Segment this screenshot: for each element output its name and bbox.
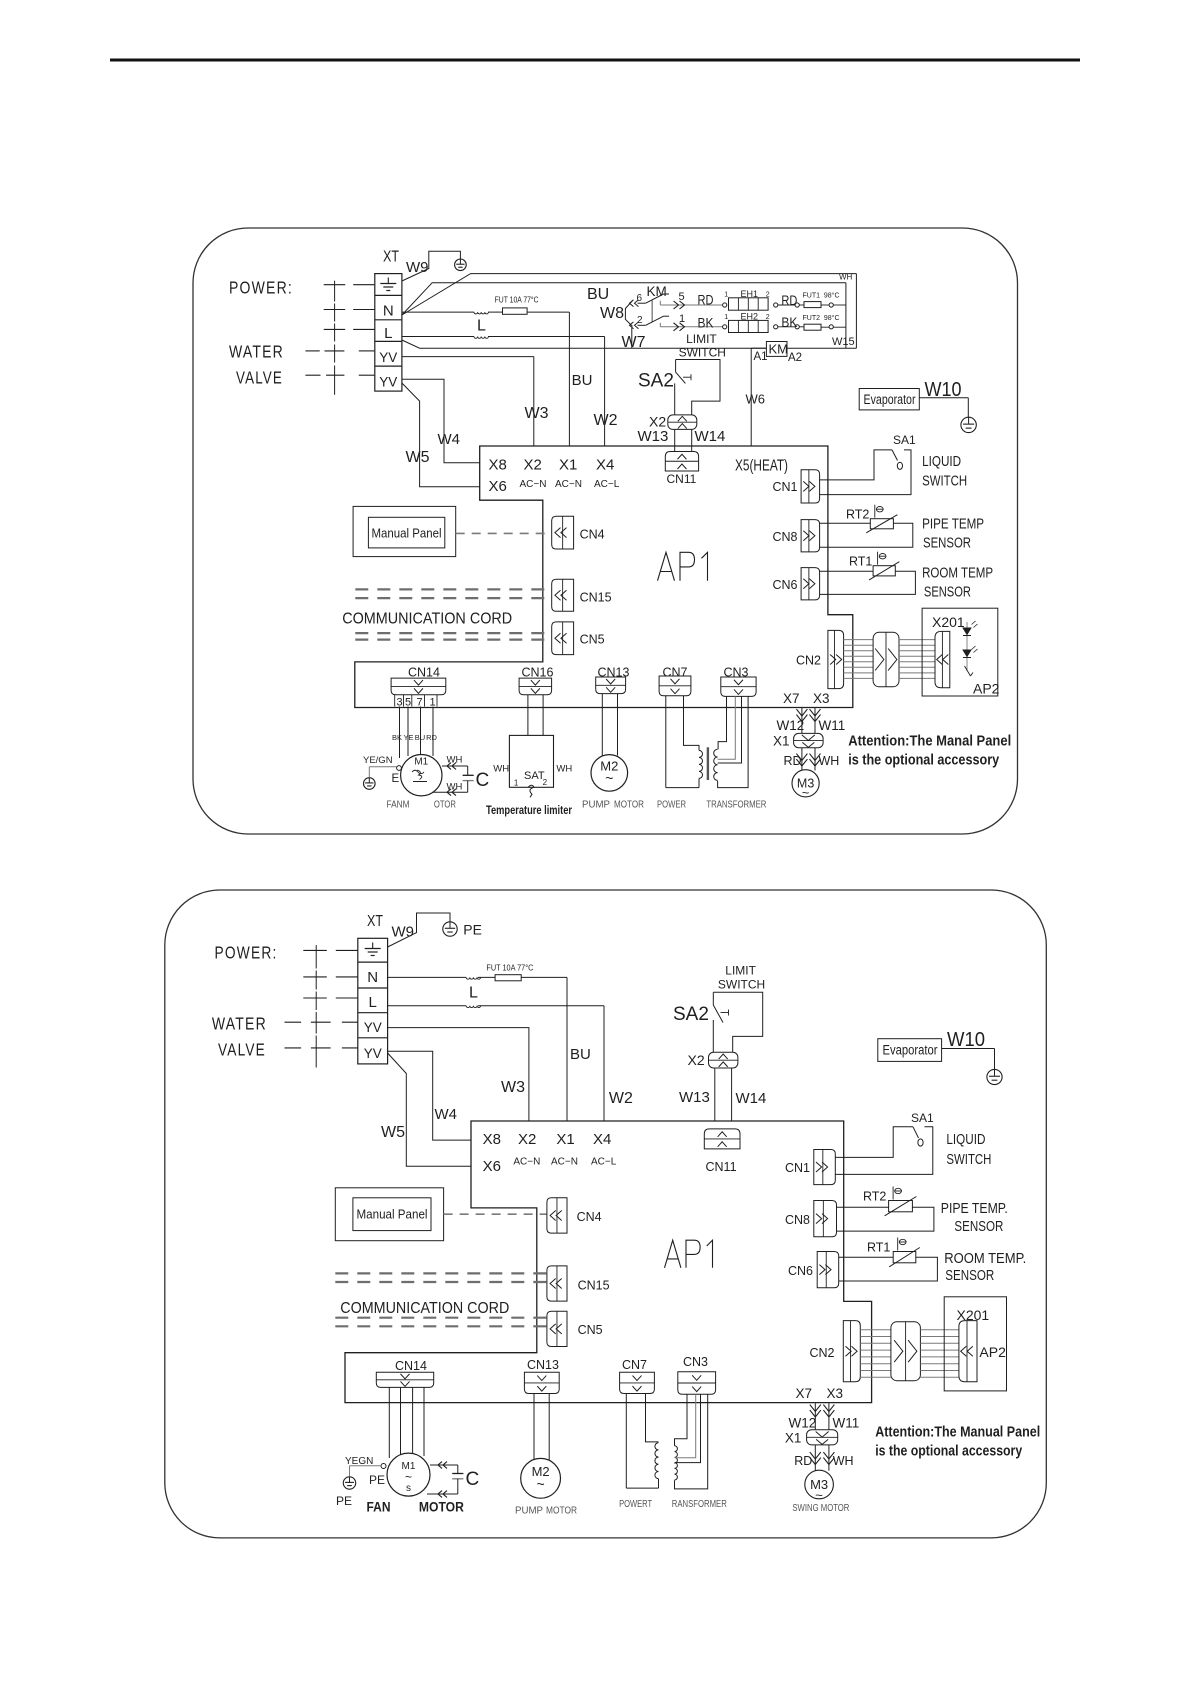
svg-text:WH: WH <box>447 755 463 766</box>
wire W3 diagram2 <box>388 1028 529 1121</box>
ribbon cable middle to X201 <box>899 639 935 641</box>
wire L phase <box>402 336 474 338</box>
svg-text:W4: W4 <box>435 1106 458 1123</box>
svg-text:CN6: CN6 <box>788 1264 813 1278</box>
svg-text:CN15: CN15 <box>578 1279 610 1293</box>
power feed L row diagram2 <box>303 997 327 999</box>
heater EH1 <box>723 303 727 307</box>
wires CN14 to fan motor diagram2 <box>388 1387 390 1458</box>
capacitor C diagram2 <box>430 1464 458 1466</box>
svg-text:CN16: CN16 <box>522 666 554 680</box>
contactor coil KM <box>766 342 787 357</box>
evaporator box diagram1 <box>859 389 919 410</box>
power feed N row diagram2 <box>303 976 327 978</box>
svg-text:WH: WH <box>556 764 572 775</box>
svg-text:SWITCH: SWITCH <box>718 977 765 991</box>
svg-text:1: 1 <box>724 314 728 321</box>
svg-text:LIQUID: LIQUID <box>946 1132 985 1148</box>
svg-text:RT2: RT2 <box>863 1190 886 1204</box>
earth symbol fan motor diagram1 <box>364 778 376 790</box>
connector CN11 diagram2 <box>704 1129 740 1149</box>
svg-text:PUMP: PUMP <box>582 800 610 811</box>
liquid switch SA1 loop diagram1 <box>820 450 892 480</box>
svg-text:RT1: RT1 <box>867 1241 890 1255</box>
connector X1 diagram1 <box>794 733 824 747</box>
connector CN1 diagram1 <box>801 470 820 503</box>
svg-text:X1: X1 <box>559 456 577 473</box>
svg-text:COMMUNICATION CORD: COMMUNICATION CORD <box>340 1300 509 1317</box>
svg-text:ROOM TEMP: ROOM TEMP <box>922 566 993 582</box>
svg-text:TRANSFORMER: TRANSFORMER <box>706 800 766 811</box>
svg-text:X7: X7 <box>796 1386 813 1401</box>
connector CN8 diagram2 <box>814 1201 837 1237</box>
wires CN13 to pump motor <box>601 694 603 756</box>
connector X201 diagram1 <box>935 631 950 687</box>
svg-text:~: ~ <box>405 1470 412 1484</box>
svg-text:C: C <box>476 770 490 791</box>
svg-text:X2: X2 <box>524 456 542 473</box>
connector CN2 diagram1 <box>828 630 844 688</box>
svg-text:CN3: CN3 <box>683 1355 708 1369</box>
dashed wire manual panel to CN4 diagram2 <box>444 1213 547 1215</box>
svg-text:ROOM TEMP.: ROOM TEMP. <box>944 1251 1026 1267</box>
ribbon cable CN2 to middle connector <box>844 639 874 641</box>
display board AP2 box diagram1 <box>922 608 998 696</box>
earth symbol PE diagram2 <box>443 922 457 936</box>
svg-text:FUT 10A 77°C: FUT 10A 77°C <box>486 964 533 973</box>
connector CN15 diagram2 <box>547 1266 567 1301</box>
svg-text:X6: X6 <box>489 478 507 495</box>
svg-text:CN2: CN2 <box>796 654 821 668</box>
svg-text:CN14: CN14 <box>408 666 440 680</box>
svg-text:PIPE TEMP.: PIPE TEMP. <box>941 1201 1008 1217</box>
label AP1 diagram1 <box>658 552 675 580</box>
svg-text:POWERT: POWERT <box>619 1499 652 1510</box>
svg-text:W14: W14 <box>736 1090 767 1107</box>
power feed N row <box>324 309 346 311</box>
svg-text:W11: W11 <box>819 718 846 733</box>
page top rule <box>110 59 1080 62</box>
svg-text:AC−N: AC−N <box>555 479 582 490</box>
svg-text:VALVE: VALVE <box>218 1039 266 1059</box>
thermistor RT2 diagram1 <box>820 522 871 524</box>
svg-text:SA1: SA1 <box>911 1111 934 1125</box>
svg-text:W15: W15 <box>832 336 855 348</box>
svg-text:CN1: CN1 <box>772 480 797 494</box>
svg-text:W5: W5 <box>406 449 430 466</box>
wire W2 vertical to X4 <box>604 337 606 447</box>
communication cord dashes lower diagram2 <box>335 1317 547 1319</box>
CN14 pin cells 3 5 7 1 <box>394 695 396 707</box>
transformer primary coil diagram1 <box>699 750 703 778</box>
svg-text:X1: X1 <box>785 1431 802 1446</box>
svg-text:X4: X4 <box>596 456 614 473</box>
svg-text:COMMUNICATION CORD: COMMUNICATION CORD <box>342 611 512 628</box>
earth symbol W10 diagram2 <box>987 1069 1002 1084</box>
svg-text:XT: XT <box>383 249 399 266</box>
connector CN15 diagram1 <box>552 579 574 611</box>
wire BU upper <box>402 283 846 315</box>
ribbon middle connector diagram2 <box>891 1322 921 1381</box>
LED D2 on AP2 <box>963 650 971 657</box>
terminal block XT diagram2 <box>358 938 388 1064</box>
svg-text:PE: PE <box>336 1494 352 1508</box>
connector CN11 diagram1 <box>665 452 698 472</box>
board AP1 outline diagram1 <box>355 446 853 708</box>
wire W11 with arrows <box>814 708 816 734</box>
svg-text:WH: WH <box>833 1454 854 1468</box>
wire W3 from YV to X2 <box>402 356 534 358</box>
transformer core diagram1 <box>707 747 709 780</box>
svg-text:98°C: 98°C <box>824 314 840 322</box>
svg-text:W11: W11 <box>833 1416 860 1431</box>
wire W4 diagram2 <box>388 1051 471 1140</box>
svg-text:RD: RD <box>426 733 437 742</box>
svg-text:CN15: CN15 <box>580 591 612 605</box>
evaporator box diagram2 <box>878 1039 942 1062</box>
svg-text:CN11: CN11 <box>667 472 697 486</box>
heater box right edge <box>855 274 857 349</box>
wire RD to swing motor <box>801 748 803 771</box>
water valve feed row 1 <box>305 350 319 352</box>
svg-text:A1: A1 <box>754 351 768 363</box>
svg-text:YV: YV <box>379 375 397 390</box>
svg-text:W2: W2 <box>594 412 618 429</box>
wires CN16 to SAT <box>527 695 529 736</box>
svg-text:MOTOR: MOTOR <box>614 800 644 811</box>
wire W14 <box>691 429 693 451</box>
svg-text:FAN: FAN <box>367 1500 391 1515</box>
svg-text:CN8: CN8 <box>785 1213 810 1227</box>
svg-text:~: ~ <box>802 785 810 800</box>
svg-text:SWITCH: SWITCH <box>679 345 726 359</box>
svg-text:1: 1 <box>724 291 728 298</box>
earth symbol fan motor diagram2 <box>343 1477 355 1489</box>
transformer secondary coil diagram1 <box>714 749 718 780</box>
wire W13 <box>674 429 676 451</box>
svg-text:98°C: 98°C <box>824 291 840 299</box>
svg-text:BU: BU <box>587 286 609 303</box>
wire WH right vertical <box>845 283 847 349</box>
svg-text:~: ~ <box>605 770 613 786</box>
wire W4 from YV to X8 <box>402 379 480 463</box>
svg-text:SWITCH: SWITCH <box>946 1152 991 1168</box>
svg-text:WATER: WATER <box>212 1014 267 1034</box>
svg-text:6: 6 <box>637 293 643 304</box>
wires CN3 to transformer secondary diagram2 <box>675 1394 688 1446</box>
communication cord dashes upper diagram2 <box>335 1272 547 1274</box>
svg-text:CN5: CN5 <box>578 1323 603 1337</box>
Manual Panel box diagram1 <box>353 506 456 556</box>
earth symbol W10 diagram1 <box>961 417 976 432</box>
temperature limiter SAT box <box>509 735 553 787</box>
wires CN3 to transformer secondary <box>718 696 726 749</box>
connector X2 diagram2 <box>709 1052 738 1068</box>
svg-text:POWER: POWER <box>657 800 686 811</box>
fuse FUT1 <box>795 303 799 307</box>
fuse FUT diagram2 <box>495 975 521 981</box>
svg-text:2: 2 <box>543 778 548 787</box>
svg-text:CN11: CN11 <box>706 1160 737 1174</box>
svg-text:VALVE: VALVE <box>236 368 283 388</box>
svg-text:L: L <box>384 325 392 342</box>
svg-text:WH: WH <box>447 782 463 793</box>
svg-text:XT: XT <box>367 913 383 930</box>
svg-text:YV: YV <box>364 1046 382 1061</box>
power feed L row <box>324 328 346 330</box>
svg-text:BK: BK <box>392 733 402 742</box>
wires CN7 to transformer primary diagram2 <box>625 1394 627 1489</box>
svg-text:N: N <box>367 969 378 986</box>
svg-text:L: L <box>369 994 377 1011</box>
wire N phase with line filter and fuse FUT <box>402 311 474 313</box>
svg-text:MOTOR: MOTOR <box>419 1500 464 1515</box>
svg-text:W14: W14 <box>695 428 726 445</box>
svg-text:W10: W10 <box>947 1029 985 1051</box>
motor M3 diagram2 <box>805 1470 834 1499</box>
svg-text:CN5: CN5 <box>580 633 605 647</box>
svg-text:KM: KM <box>769 342 789 357</box>
water valve feed row 2 diagram2 <box>285 1047 302 1049</box>
wire W6 to board <box>751 347 766 349</box>
svg-text:M1: M1 <box>414 757 428 768</box>
connector CN8 diagram1 <box>801 520 820 552</box>
photo switch on AP2 <box>965 666 971 676</box>
label AP1 diagram2 <box>665 1240 681 1268</box>
XT ground cell earth symbol <box>387 278 389 284</box>
svg-text:CN8: CN8 <box>772 530 797 544</box>
svg-text:PE: PE <box>369 1473 385 1487</box>
svg-text:X8: X8 <box>489 456 507 473</box>
svg-text:W5: W5 <box>381 1124 405 1141</box>
svg-text:X6: X6 <box>483 1158 501 1175</box>
wire KM pole 1 to EH2 <box>659 323 661 327</box>
ribbon middle connector diagram1 <box>873 632 899 687</box>
svg-text:BU: BU <box>415 733 425 742</box>
svg-text:is the optional accessory: is the optional accessory <box>848 752 999 768</box>
wire KM pole 5 to EH1 <box>659 301 661 305</box>
terminal block XT <box>375 274 402 392</box>
svg-text:2: 2 <box>766 314 770 321</box>
svg-text:Evaporator: Evaporator <box>883 1043 938 1058</box>
svg-text:N: N <box>383 303 394 320</box>
svg-text:CN4: CN4 <box>580 528 605 542</box>
display board AP2 box diagram2 <box>944 1297 1006 1391</box>
inductor on L wire <box>474 337 488 339</box>
svg-text:AP2: AP2 <box>973 681 1000 697</box>
power feed ground row <box>324 284 346 286</box>
svg-text:1: 1 <box>679 313 685 325</box>
svg-text:PE: PE <box>463 922 482 938</box>
svg-text:FANM: FANM <box>387 800 410 811</box>
svg-text:PIPE TEMP: PIPE TEMP <box>922 516 984 532</box>
svg-text:W3: W3 <box>525 405 549 422</box>
svg-text:X4: X4 <box>593 1131 611 1148</box>
wire W13 diagram2 <box>714 1068 716 1121</box>
svg-text:YEGN: YEGN <box>345 1456 373 1467</box>
inductor on L wire diagram2 <box>466 1006 480 1008</box>
Manual Panel box diagram2 <box>335 1188 443 1241</box>
connector CN4 diagram2 <box>547 1198 567 1233</box>
wire N to heater top line <box>402 274 857 315</box>
svg-text:X2: X2 <box>518 1131 536 1148</box>
svg-text:X1: X1 <box>556 1131 574 1148</box>
heater EH2 <box>723 325 727 329</box>
svg-text:X201: X201 <box>932 614 965 630</box>
wires CN7 to transformer primary <box>665 696 667 788</box>
earth symbol PE top diagram1 <box>455 259 467 271</box>
svg-text:L: L <box>469 985 478 1002</box>
svg-text:C: C <box>466 1469 480 1490</box>
svg-text:5: 5 <box>679 291 685 303</box>
svg-text:YE/GN: YE/GN <box>363 755 393 766</box>
connector CN5 diagram2 <box>547 1311 567 1346</box>
svg-text:CN7: CN7 <box>663 666 688 680</box>
terminal PE on fan motor diagram2 <box>381 1464 386 1469</box>
svg-text:W3: W3 <box>501 1079 525 1096</box>
svg-text:RD: RD <box>698 292 714 308</box>
svg-text:AC−N: AC−N <box>520 479 547 490</box>
svg-text:BU: BU <box>570 1046 591 1063</box>
svg-text:CN1: CN1 <box>785 1161 810 1175</box>
svg-text:W7: W7 <box>622 334 646 351</box>
svg-text:AC−L: AC−L <box>594 479 620 490</box>
svg-text:SENSOR: SENSOR <box>954 1219 1003 1235</box>
svg-text:MOTOR: MOTOR <box>546 1506 577 1517</box>
svg-text:W9: W9 <box>406 259 429 276</box>
svg-text:Temperature limiter: Temperature limiter <box>486 805 572 817</box>
wires CN14 to fan motor <box>399 707 401 759</box>
svg-text:Evaporator: Evaporator <box>864 392 916 407</box>
fuse FUT 10A 77C <box>503 308 528 314</box>
fan motor M1 diagram1 <box>401 755 442 796</box>
svg-text:BK: BK <box>698 315 715 331</box>
wire BU vertical diagram2 <box>566 977 568 1121</box>
svg-text:E: E <box>392 773 400 785</box>
svg-text:~: ~ <box>537 1476 545 1492</box>
svg-text:RD: RD <box>784 754 802 768</box>
diagram 2 border <box>165 890 1047 1538</box>
water valve feed row 2 <box>305 374 320 376</box>
svg-text:SENSOR: SENSOR <box>923 535 971 551</box>
svg-text:CN2: CN2 <box>810 1346 835 1360</box>
wire WH to swing motor diagram2 <box>828 1445 830 1471</box>
svg-text:2: 2 <box>637 315 643 326</box>
svg-text:SA1: SA1 <box>893 433 916 447</box>
svg-text:EH2: EH2 <box>741 312 759 322</box>
svg-text:POWER:: POWER: <box>229 278 293 298</box>
fuse FUT2 <box>795 325 799 329</box>
wire W10 diagram2 <box>942 1048 995 1050</box>
svg-text:LIMIT: LIMIT <box>725 964 756 978</box>
transformer primary coil diagram2 <box>655 1443 659 1479</box>
svg-text:SWITCH: SWITCH <box>922 473 967 489</box>
water valve feed row 1 diagram2 <box>285 1021 302 1023</box>
connector CN4 diagram1 <box>552 516 574 549</box>
svg-text:WH: WH <box>493 764 509 775</box>
svg-text:Manual Panel: Manual Panel <box>357 1208 428 1222</box>
wire W12 diagram2 <box>814 1403 816 1430</box>
wire BU vertical to X1 <box>568 312 570 446</box>
communication cord dashes upper <box>355 588 551 590</box>
wire W7 vertical <box>631 328 633 348</box>
svg-text:RANSFORMER: RANSFORMER <box>672 1499 727 1510</box>
svg-text:L: L <box>477 318 486 335</box>
svg-text:SA2: SA2 <box>673 1004 709 1025</box>
svg-text:YV: YV <box>379 350 397 365</box>
svg-text:EH1: EH1 <box>741 289 759 299</box>
svg-text:W13: W13 <box>679 1089 710 1106</box>
ribbon cable middle to X201 diagram2 <box>920 1329 959 1331</box>
svg-text:X5(HEAT): X5(HEAT) <box>735 458 788 475</box>
wire N phase diagram2 <box>388 976 467 978</box>
connector CN1 diagram2 <box>814 1150 836 1185</box>
svg-text:AP2: AP2 <box>979 1344 1006 1360</box>
svg-text:W12: W12 <box>777 718 805 733</box>
svg-text:YV: YV <box>364 1020 382 1035</box>
svg-text:X1: X1 <box>773 734 790 749</box>
pump motor M2 diagram2 <box>521 1458 561 1498</box>
svg-text:X3: X3 <box>813 691 830 706</box>
wire W2 vertical diagram2 <box>603 1006 605 1121</box>
svg-text:1: 1 <box>514 779 519 788</box>
capacitor C diagram1 <box>442 765 468 767</box>
svg-text:W12: W12 <box>789 1416 817 1431</box>
board AP1 outline diagram2 <box>345 1121 872 1403</box>
svg-text:RT2: RT2 <box>846 508 869 522</box>
XT ground cell earth symbol diagram2 <box>372 943 374 949</box>
svg-text:X2: X2 <box>688 1052 705 1068</box>
svg-text:W6: W6 <box>746 392 766 407</box>
svg-text:POWER:: POWER: <box>215 943 278 963</box>
terminal E on fan motor <box>397 766 402 771</box>
svg-text:BU: BU <box>572 372 593 389</box>
wire W10 diagram1 <box>919 397 968 399</box>
svg-text:A2: A2 <box>788 352 802 364</box>
svg-text:X7: X7 <box>783 691 800 706</box>
connector X2 diagram1 <box>668 415 697 430</box>
wire W14 diagram2 <box>731 1068 733 1121</box>
transformer secondary coil diagram2 <box>675 1446 678 1463</box>
power feed ground row diagram2 <box>303 949 327 951</box>
pump motor M2 diagram1 <box>591 755 628 792</box>
diagram 1 border <box>193 228 1018 834</box>
svg-text:PUMP: PUMP <box>515 1506 543 1517</box>
svg-text:Attention:The Manual Panel: Attention:The Manual Panel <box>875 1425 1040 1441</box>
svg-text:RD: RD <box>794 1454 812 1468</box>
svg-text:SENSOR: SENSOR <box>924 584 971 600</box>
connector X1 diagram2 <box>807 1430 838 1445</box>
dashed wire manual panel to CN4 <box>456 532 552 534</box>
svg-text:FUT2: FUT2 <box>803 315 821 322</box>
svg-text:KM: KM <box>647 284 667 299</box>
LED D1 on AP2 <box>966 622 968 671</box>
thermistor RT1 diagram2 <box>839 1256 894 1258</box>
svg-text:FUT 10A 77°C: FUT 10A 77°C <box>495 295 539 304</box>
svg-text:SA2: SA2 <box>638 371 674 392</box>
svg-text:SENSOR: SENSOR <box>945 1268 994 1284</box>
connector CN5 diagram1 <box>552 622 574 655</box>
wire W12 with arrows <box>801 708 803 734</box>
wire L phase diagram2 <box>388 1005 467 1007</box>
svg-text:is the optional accessory: is the optional accessory <box>875 1443 1022 1459</box>
wire W9 to earth <box>402 251 461 281</box>
svg-text:W9: W9 <box>392 924 415 941</box>
svg-text:CN6: CN6 <box>772 578 797 592</box>
svg-text:LIQUID: LIQUID <box>922 454 961 470</box>
connector CN6 diagram1 <box>801 568 820 600</box>
svg-text:WATER: WATER <box>229 341 284 361</box>
